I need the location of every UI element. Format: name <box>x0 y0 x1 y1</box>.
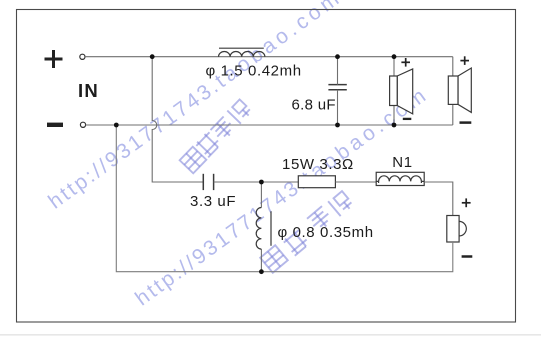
watermark url band D <box>131 82 433 310</box>
svg-text:φ 0.8 0.35mh: φ 0.8 0.35mh <box>278 224 374 241</box>
svg-text:15W 3.3Ω: 15W 3.3Ω <box>282 156 354 173</box>
wire bottom rail <box>86 124 453 126</box>
capacitor C2 plates <box>203 174 213 190</box>
wire N1 to tweeter <box>424 182 453 216</box>
wire top rail <box>85 56 453 58</box>
tweeter SPK3 minus mark <box>462 255 473 258</box>
inductor L2 core bar <box>270 211 272 246</box>
speaker SPK2 body <box>448 68 471 112</box>
inductor N1 box <box>376 172 424 185</box>
tweeter SPK3 body <box>447 216 459 243</box>
tweeter SPK3 dome <box>459 221 466 236</box>
svg-text:6.8 uF: 6.8 uF <box>292 97 336 114</box>
speaker SPK1 body <box>390 69 413 114</box>
wire vertical from top junction with hop over bottom rail <box>152 57 203 182</box>
tweeter SPK3 plus mark <box>462 198 471 207</box>
speaker SPK2 plus mark <box>460 56 469 65</box>
terminal + (input positive) <box>45 50 63 68</box>
resistor R1 body <box>298 176 335 188</box>
svg-text:3.3 uF: 3.3 uF <box>190 193 236 210</box>
speaker SPK2 leads <box>452 57 454 125</box>
inductor L1 coil <box>219 51 265 56</box>
capacitor C1 leads <box>337 57 339 125</box>
capacitor C1 plates <box>328 85 346 90</box>
terminal + open circle <box>80 54 85 59</box>
speaker SPK1 leads <box>393 57 395 125</box>
wire C2 to R1 <box>214 181 299 183</box>
wire bottom return path <box>116 125 453 272</box>
watermark url band A <box>44 0 346 214</box>
inductor L1 core bar <box>219 47 264 49</box>
svg-text:IN: IN <box>78 80 99 101</box>
speaker SPK1 plus mark <box>401 58 410 67</box>
terminal - open circle <box>80 122 85 127</box>
speaker SPK2 minus mark <box>460 121 472 124</box>
svg-text:φ 1.5 0.42mh: φ 1.5 0.42mh <box>206 63 302 80</box>
inductor L2 leads <box>260 182 262 272</box>
inductor N1 coil <box>376 176 424 183</box>
wire R1 to N1 <box>335 181 376 183</box>
terminal - (input negative) <box>47 123 63 127</box>
watermark hanzi band B <box>180 99 253 174</box>
watermark hanzi band F <box>260 190 354 273</box>
svg-text:N1: N1 <box>392 154 412 171</box>
speaker SPK1 minus mark <box>403 118 412 120</box>
inductor L2 coil <box>256 208 261 250</box>
